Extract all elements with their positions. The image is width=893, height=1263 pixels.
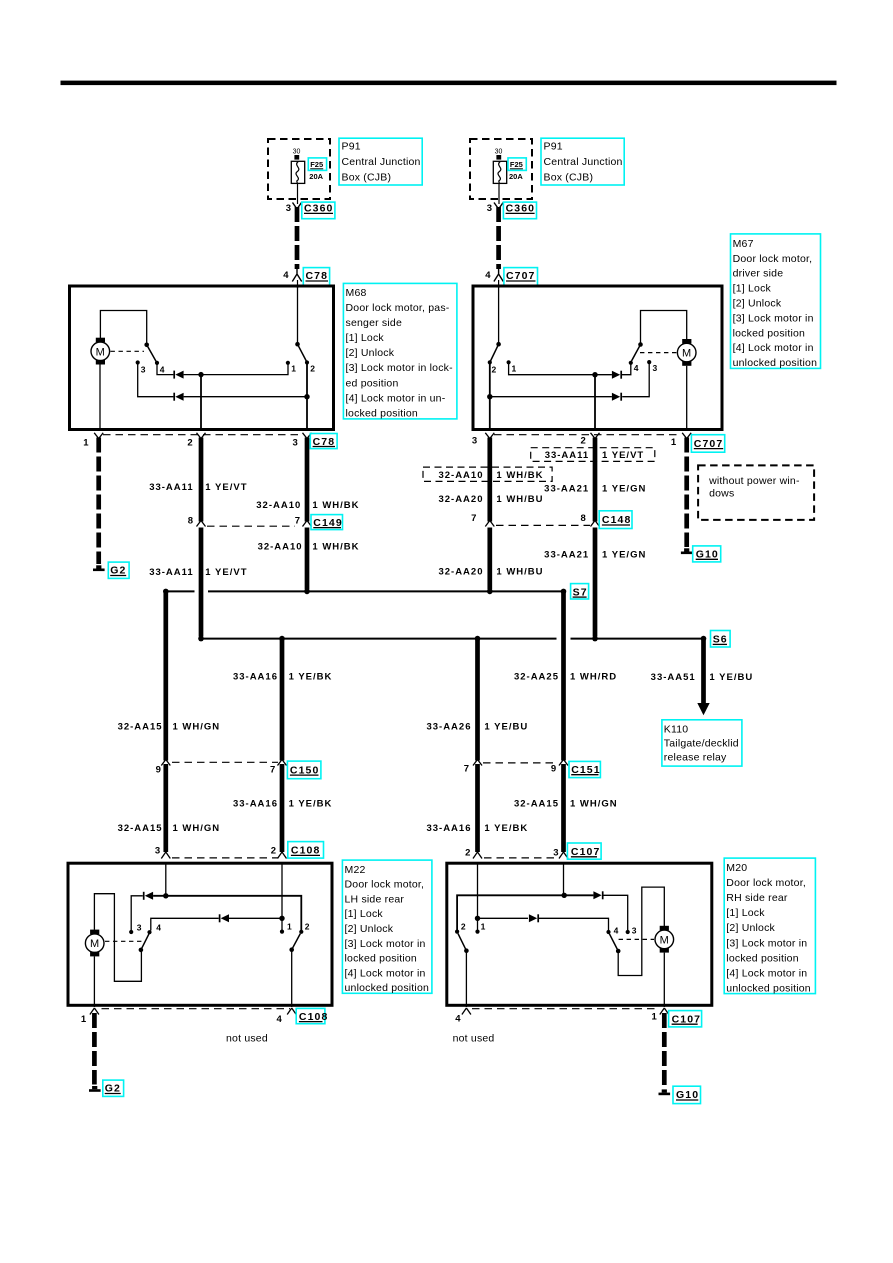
contact 4 M22 bbox=[147, 930, 151, 934]
connector symbol C360 right (prongs up) bbox=[494, 203, 503, 210]
svg-text:Door lock motor,: Door lock motor, bbox=[733, 253, 813, 265]
svg-text:30: 30 bbox=[495, 149, 503, 156]
motor box M20 border bbox=[447, 863, 712, 1005]
svg-text:[1] Lock: [1] Lock bbox=[733, 283, 772, 295]
switch pivot M22 left bbox=[139, 948, 144, 953]
svg-text:33-AA11: 33-AA11 bbox=[149, 482, 194, 493]
wire 32-AA15 upper (bus to C150 pin9) bbox=[163, 591, 168, 760]
connector symbol C108 pin2 (prongs down) bbox=[278, 852, 287, 859]
wire diode lower to pin3 wire M68 bbox=[184, 396, 307, 398]
ground G2 mid symbol bbox=[93, 565, 105, 571]
wire diode to contact 3 M20 bbox=[603, 895, 628, 930]
switch arm M68 left (closed on 4) bbox=[147, 345, 156, 361]
wire contact 3 riser to horizontal M67 lower bbox=[622, 362, 649, 397]
svg-text:[4] Lock motor in un-: [4] Lock motor in un- bbox=[346, 392, 446, 404]
svg-text:1 WH/BK: 1 WH/BK bbox=[496, 470, 543, 481]
label C148 (cyan box) bbox=[599, 511, 632, 529]
wire 33-AA11 upper (M68 pin2 to C149 pin8) bbox=[199, 438, 204, 522]
contact 3 M67 bbox=[647, 360, 651, 364]
contact 3 M22 bbox=[129, 930, 133, 934]
svg-text:3: 3 bbox=[293, 437, 298, 448]
wire contact 2 down to pin 3 M68 bbox=[306, 363, 308, 430]
wire pin2 dot to diode M20 lower bbox=[478, 917, 529, 919]
junction dot 33-AA11 end bbox=[198, 636, 204, 642]
connector symbol C149 pin8 bbox=[197, 521, 206, 527]
connector symbol pin1 C78 (prongs up) bbox=[94, 433, 103, 439]
svg-text:1 YE/BK: 1 YE/BK bbox=[484, 823, 528, 834]
contact 2 M20 bbox=[455, 930, 459, 934]
splice bus S7 (lock circuit) bbox=[165, 590, 564, 592]
fuse F25 left body bbox=[291, 161, 304, 183]
switch pivot M68 right bbox=[295, 342, 300, 347]
connector symbol C150 pin7 bbox=[278, 760, 287, 766]
svg-text:3: 3 bbox=[141, 365, 146, 375]
wire C707 pin4 down to pivot M67 left bbox=[498, 287, 500, 344]
svg-text:4: 4 bbox=[156, 922, 161, 932]
junction dot on pin2 wire M67 bbox=[592, 372, 597, 377]
wire 33-AA16 upper (bus to C150 pin7) bbox=[280, 639, 285, 761]
wire C107 pin1 to ground G10 (thick dashed) bbox=[662, 1013, 667, 1088]
svg-text:33-AA11: 33-AA11 bbox=[149, 567, 194, 578]
top horizontal rule bbox=[61, 81, 837, 86]
svg-text:Central Junction: Central Junction bbox=[544, 156, 623, 168]
label 33-AA11 1 YE/VT alternate (dashed box) bbox=[531, 448, 655, 462]
svg-text:32-AA25: 32-AA25 bbox=[514, 671, 559, 682]
junction dot pin2 wire M22 bbox=[279, 916, 284, 921]
svg-text:9: 9 bbox=[551, 764, 556, 775]
label G10 bottom (cyan box) bbox=[673, 1086, 701, 1103]
wire fuse to C360 left bbox=[297, 183, 299, 204]
svg-text:RH side rear: RH side rear bbox=[726, 892, 788, 904]
wire contact 1 riser to horizontal M67 bbox=[509, 362, 595, 374]
svg-text:1: 1 bbox=[287, 921, 292, 931]
switch arm M67 right (closed on 4) bbox=[632, 345, 641, 362]
svg-text:2: 2 bbox=[187, 437, 192, 448]
svg-text:1 YE/VT: 1 YE/VT bbox=[602, 450, 644, 461]
wire contact4 riser and horizontal M22 lower bbox=[151, 918, 219, 930]
ground G10 mid symbol bbox=[681, 548, 693, 554]
label M68 description (cyan box) bbox=[343, 283, 457, 419]
wire 32-AA20 upper (M67 pin3 to C148 pin7) bbox=[487, 438, 492, 522]
svg-text:release relay: release relay bbox=[664, 752, 727, 764]
wire contact 3 to diode M68 lower bbox=[138, 363, 174, 397]
wire diode to contact 2 M22 bbox=[153, 896, 301, 931]
dashed line C707 connector row bbox=[494, 434, 681, 436]
junction dot 32-AA10 end bbox=[304, 589, 310, 595]
junction dot 32-AA20 end bbox=[487, 589, 493, 595]
ground G10 bottom symbol bbox=[659, 1089, 671, 1095]
svg-text:4: 4 bbox=[614, 926, 619, 936]
svg-text:locked position: locked position bbox=[346, 407, 418, 419]
wire contact 4 to diode M68 bbox=[157, 363, 173, 375]
junction dot 33-AA21 end bbox=[592, 636, 598, 642]
wire C108 pin1 to ground G2 (thick dashed) bbox=[92, 1013, 97, 1085]
svg-text:[1] Lock: [1] Lock bbox=[726, 907, 765, 919]
wire M67 pin1 to ground G10 (thick dashed) bbox=[684, 438, 689, 548]
connector symbol pin1 C707 (prongs up) bbox=[682, 433, 691, 439]
connector symbol C108 pin4 (prongs down, not used) bbox=[287, 1008, 296, 1015]
svg-text:4: 4 bbox=[283, 270, 289, 281]
svg-text:2: 2 bbox=[461, 921, 466, 931]
svg-text:7: 7 bbox=[471, 513, 476, 524]
node S7 dot bbox=[561, 589, 567, 595]
switch pivot M20 left bbox=[464, 948, 469, 953]
switch pivot M67 right bbox=[638, 342, 643, 347]
dashed line C150 connector row bbox=[172, 761, 278, 763]
svg-text:[3] Lock motor in: [3] Lock motor in bbox=[733, 312, 814, 324]
connector symbol C108 pin1 (prongs down) bbox=[90, 1008, 99, 1015]
wire motor M20 bottom to pin 1 bbox=[663, 953, 665, 1007]
svg-text:4: 4 bbox=[634, 363, 639, 373]
svg-text:F25: F25 bbox=[510, 160, 523, 169]
dashed line C108 connector row bbox=[172, 857, 278, 859]
svg-text:1 WH/BK: 1 WH/BK bbox=[312, 541, 359, 552]
svg-text:[3] Lock motor in: [3] Lock motor in bbox=[726, 937, 807, 949]
diode M20 lower (points right) bbox=[529, 914, 538, 922]
wire 33-AA11 lower (C149 pin8 to bus) bbox=[199, 528, 204, 637]
connector symbol C151 pin7 bbox=[473, 760, 482, 766]
label F25 left (cyan box) bbox=[308, 158, 326, 171]
P91 Central Junction Box label left (cyan box) bbox=[339, 138, 422, 185]
svg-text:M67: M67 bbox=[733, 238, 754, 250]
junction dot pin3 wire M67 bbox=[487, 394, 492, 399]
switch arm M22 right (closed on 2) bbox=[292, 934, 301, 950]
wire 32-AA20 lower (C148 pin7 to splice) bbox=[487, 528, 492, 590]
motor M68 bbox=[91, 338, 110, 365]
wire C108 pin2 into box to contact 1 bbox=[281, 862, 283, 931]
svg-text:33-AA16: 33-AA16 bbox=[426, 823, 471, 834]
svg-text:33-AA21: 33-AA21 bbox=[544, 550, 589, 561]
wire pivot M20 left down to pin 4 bbox=[465, 951, 467, 1007]
svg-text:1 YE/BU: 1 YE/BU bbox=[484, 721, 528, 732]
wire fuse to C360 right bbox=[498, 183, 500, 204]
dashed line C149 connector row bbox=[207, 525, 295, 527]
dashed line C108 bottom row bbox=[102, 1008, 291, 1010]
svg-text:1: 1 bbox=[512, 364, 517, 374]
svg-text:4: 4 bbox=[160, 365, 165, 375]
contact 4 M68 bbox=[155, 361, 159, 365]
diode M22 upper (points left) bbox=[144, 892, 153, 900]
wire diode lower to pin3 wire M67 bbox=[490, 396, 612, 398]
wire C107 pin2 into box to contact 1 bbox=[477, 862, 479, 931]
svg-text:1 WH/GN: 1 WH/GN bbox=[173, 721, 221, 732]
label 32-AA10 1 WH/BK alternate (dashed box) bbox=[423, 467, 552, 481]
svg-text:1 YE/BK: 1 YE/BK bbox=[289, 799, 333, 810]
connector symbol C107 pin2 (prongs down) bbox=[473, 852, 482, 859]
label M22 description (cyan box) bbox=[342, 860, 432, 994]
diode M68 upper (points left) bbox=[174, 371, 183, 379]
dashed line C107 connector row bbox=[484, 857, 560, 859]
wire 33-AA26 (bus to C151 pin7) bbox=[475, 639, 480, 761]
wire diode to contact 1 M68 bbox=[184, 364, 288, 375]
svg-text:1 WH/GN: 1 WH/GN bbox=[570, 799, 618, 810]
wire 33-AA51 to K110 (arrow) bbox=[697, 639, 709, 716]
connector symbol C108 pin3 (prongs down) bbox=[161, 852, 170, 859]
svg-text:not used: not used bbox=[453, 1033, 495, 1045]
svg-text:without power win-: without power win- bbox=[708, 475, 800, 487]
wire contact 2 down to pin 3 M67 bbox=[489, 362, 491, 429]
ground G2 bottom symbol bbox=[89, 1086, 101, 1092]
svg-text:Door lock motor,: Door lock motor, bbox=[345, 879, 425, 891]
dashed line C151 connector row bbox=[483, 762, 558, 764]
label C360 right (cyan box) bbox=[503, 202, 536, 219]
svg-text:P91: P91 bbox=[544, 141, 563, 153]
svg-text:1 YE/BK: 1 YE/BK bbox=[289, 671, 333, 682]
svg-text:M: M bbox=[660, 934, 669, 946]
svg-text:1 WH/BK: 1 WH/BK bbox=[312, 500, 359, 511]
fuse box P91 left (dashed border) bbox=[268, 139, 330, 199]
contact 4 M20 bbox=[606, 930, 610, 934]
svg-text:2: 2 bbox=[581, 436, 586, 447]
connector symbol C107 pin3 (prongs down) bbox=[559, 852, 568, 859]
motor M67 bbox=[677, 339, 696, 366]
label C150 (cyan box) bbox=[287, 761, 321, 779]
svg-text:33-AA16: 33-AA16 bbox=[233, 799, 278, 810]
wire contact2 riser and horizontal M20 upper bbox=[457, 895, 593, 931]
junction dot 33-AA16 start bbox=[279, 636, 285, 642]
svg-text:7: 7 bbox=[464, 764, 469, 775]
svg-text:1: 1 bbox=[481, 921, 486, 931]
svg-text:20A: 20A bbox=[509, 172, 523, 181]
label C107 bottom (cyan box) bbox=[669, 1011, 702, 1027]
svg-text:1: 1 bbox=[81, 1014, 87, 1025]
svg-text:1: 1 bbox=[652, 1012, 658, 1023]
wire pivot M22 right down to pin 4 bbox=[291, 950, 293, 1007]
svg-text:20A: 20A bbox=[309, 172, 323, 181]
svg-text:LH side rear: LH side rear bbox=[345, 893, 405, 905]
svg-text:[4] Lock motor in: [4] Lock motor in bbox=[345, 967, 426, 979]
contact 1 M22 bbox=[280, 930, 284, 934]
label S6 (cyan box) bbox=[711, 631, 731, 648]
node 30 terminal dot left bbox=[294, 155, 299, 160]
svg-text:3: 3 bbox=[553, 847, 558, 858]
svg-text:4: 4 bbox=[277, 1014, 283, 1025]
svg-text:3: 3 bbox=[487, 203, 492, 214]
junction dot pin2 wire M20 bbox=[475, 916, 480, 921]
wire 32-AA15 lower (C150 pin9 to C108 pin3) bbox=[163, 764, 168, 852]
svg-text:K110: K110 bbox=[664, 723, 689, 735]
svg-text:unlocked position: unlocked position bbox=[345, 982, 430, 994]
wire into M68 box top bbox=[297, 280, 299, 288]
svg-text:2: 2 bbox=[492, 365, 497, 375]
motor box M68 border bbox=[70, 286, 334, 430]
label C108 top (cyan box) bbox=[288, 842, 324, 859]
label C107 top (cyan box) bbox=[567, 843, 601, 859]
svg-text:not used: not used bbox=[226, 1033, 268, 1045]
svg-text:4: 4 bbox=[485, 270, 491, 281]
connector symbol C149 pin7 bbox=[303, 521, 312, 527]
svg-text:32-AA10: 32-AA10 bbox=[256, 500, 301, 511]
svg-text:3: 3 bbox=[653, 363, 658, 373]
svg-text:M68: M68 bbox=[346, 287, 367, 299]
dashed line C78 connector row bbox=[103, 434, 303, 436]
svg-text:3: 3 bbox=[155, 845, 160, 856]
connector symbol C150 pin9 bbox=[161, 760, 170, 766]
wire motor M20 top loop to pivot bbox=[618, 887, 664, 975]
junction dot pin3 wire M22 bbox=[163, 893, 168, 898]
wire C360 to C78 left (thick dashed) bbox=[295, 207, 300, 269]
connector symbol pin2 C707 (prongs up) bbox=[591, 433, 600, 439]
wire 32-AA25 (S7 to C151 pin9) bbox=[561, 591, 566, 760]
svg-text:dows: dows bbox=[709, 487, 734, 499]
svg-text:M: M bbox=[96, 346, 105, 358]
junction dot 33-AA26 start bbox=[475, 636, 481, 642]
dashed line C148 connector row bbox=[496, 524, 590, 526]
wire 33-AA21 lower (C148 pin8 to bus) bbox=[593, 528, 598, 637]
svg-text:1 YE/VT: 1 YE/VT bbox=[205, 482, 247, 493]
diode M67 lower (points right) bbox=[612, 393, 621, 401]
wire motor M22 top loop to pivot bbox=[94, 894, 141, 982]
svg-text:P91: P91 bbox=[342, 141, 361, 153]
dashed link motor to switch M20 bbox=[619, 938, 654, 940]
svg-text:7: 7 bbox=[270, 764, 275, 775]
wire C108 pin3 into box to diode row bbox=[165, 862, 167, 896]
svg-text:1 YE/GN: 1 YE/GN bbox=[602, 550, 646, 561]
wire 32-AA15 right lower (C151 pin9 to C107 pin3) bbox=[561, 764, 566, 852]
switch arm M67 left (closed on 2) bbox=[491, 344, 499, 361]
svg-text:1 YE/GN: 1 YE/GN bbox=[602, 483, 646, 494]
label G2 mid (cyan box) bbox=[108, 562, 129, 578]
svg-text:32-AA20: 32-AA20 bbox=[438, 494, 483, 505]
svg-text:locked position: locked position bbox=[726, 952, 798, 964]
motor M22 bbox=[85, 930, 104, 957]
contact 2 M67 bbox=[488, 360, 492, 364]
contact 1 M20 bbox=[475, 930, 479, 934]
label G2 bottom (cyan box) bbox=[103, 1080, 124, 1096]
wire M68 pin1 to ground G2 (thick dashed) bbox=[96, 438, 101, 565]
wire motor M22 bottom to pin 1 bbox=[93, 956, 95, 1007]
wire 32-AA10 lower (C149 pin7 to splice) bbox=[305, 528, 310, 590]
connector symbol C148 pin7 bbox=[485, 521, 494, 527]
wire diode to contact 4 M67 bbox=[621, 364, 631, 375]
svg-text:1 WH/BU: 1 WH/BU bbox=[496, 567, 543, 578]
junction dot on pin2 wire M68 bbox=[198, 372, 203, 377]
svg-text:33-AA26: 33-AA26 bbox=[426, 721, 471, 732]
switch arm M22 left (closed on 4) bbox=[141, 934, 149, 950]
switch pivot M20 right bbox=[616, 949, 621, 954]
wire C78 pin4 down to pivot M68 right bbox=[297, 287, 299, 344]
svg-text:[4] Lock motor in: [4] Lock motor in bbox=[726, 967, 807, 979]
svg-text:30: 30 bbox=[293, 149, 301, 156]
svg-text:1 WH/GN: 1 WH/GN bbox=[173, 823, 221, 834]
diode M22 lower (points left) bbox=[220, 914, 229, 922]
contact 1 M67 bbox=[507, 360, 511, 364]
label C78 bottom (cyan box) bbox=[310, 434, 337, 449]
svg-text:33-AA21: 33-AA21 bbox=[544, 483, 589, 494]
switch arm M68 right (closed on 2) bbox=[298, 344, 307, 361]
motor box M67 border bbox=[473, 286, 722, 430]
svg-text:[1] Lock: [1] Lock bbox=[345, 908, 384, 920]
svg-text:3: 3 bbox=[137, 922, 142, 932]
junction dot bus start 32-AA15 bbox=[163, 589, 169, 595]
svg-text:[2] Unlock: [2] Unlock bbox=[726, 922, 775, 934]
svg-text:[3] Lock motor in lock-: [3] Lock motor in lock- bbox=[346, 362, 454, 374]
svg-text:Door lock motor, pas-: Door lock motor, pas- bbox=[346, 302, 450, 314]
svg-text:[4] Lock motor in: [4] Lock motor in bbox=[733, 342, 814, 354]
contact 2 M22 bbox=[299, 930, 303, 934]
label M67 description (cyan box) bbox=[731, 234, 821, 369]
wire motor M67 top loop bbox=[641, 311, 687, 344]
svg-text:Box (CJB): Box (CJB) bbox=[544, 172, 594, 184]
diode M20 upper (points right) bbox=[593, 891, 602, 899]
svg-text:1: 1 bbox=[83, 437, 89, 448]
svg-text:33-AA11: 33-AA11 bbox=[545, 450, 590, 461]
switch arm M20 left (closed on 2) bbox=[458, 934, 466, 951]
P91 Central Junction Box label right (cyan box) bbox=[541, 138, 624, 185]
svg-text:32-AA15: 32-AA15 bbox=[514, 799, 559, 810]
motor M20 bbox=[655, 926, 674, 953]
connector symbol C78 left (prongs down) bbox=[292, 268, 301, 282]
diode M67 upper (points right) bbox=[612, 371, 621, 379]
svg-text:3: 3 bbox=[286, 203, 291, 214]
note without power windows (dashed box) bbox=[698, 465, 814, 520]
connector symbol C148 pin8 bbox=[591, 521, 600, 527]
node 30 terminal dot right bbox=[496, 155, 501, 160]
svg-text:[2] Unlock: [2] Unlock bbox=[345, 923, 394, 935]
svg-text:1 YE/BU: 1 YE/BU bbox=[709, 672, 753, 683]
fuse F25 right body bbox=[493, 161, 506, 183]
svg-text:3: 3 bbox=[472, 436, 477, 447]
wire 33-AA16 right lower (C151 pin7 to C107 pin2) bbox=[475, 764, 480, 852]
connector symbol pin3 C707 (prongs up) bbox=[485, 433, 494, 439]
svg-text:1 WH/BU: 1 WH/BU bbox=[496, 494, 543, 505]
svg-text:Door lock motor,: Door lock motor, bbox=[726, 877, 806, 889]
switch pivot M22 right bbox=[289, 947, 294, 952]
contact 4 M67 bbox=[629, 361, 633, 365]
svg-text:32-AA10: 32-AA10 bbox=[438, 470, 483, 481]
contact 3 M20 bbox=[626, 930, 630, 934]
label C108 bottom (cyan box) bbox=[296, 1008, 328, 1023]
svg-text:Box (CJB): Box (CJB) bbox=[342, 172, 392, 184]
svg-text:[2] Unlock: [2] Unlock bbox=[346, 347, 395, 359]
contact 2 M68 bbox=[305, 360, 309, 364]
wire C107 pin3 into box to diode row bbox=[563, 862, 565, 896]
fuse box P91 right (dashed border) bbox=[470, 139, 532, 199]
svg-text:[3] Lock motor in: [3] Lock motor in bbox=[345, 938, 426, 950]
connector symbol C707 top right (prongs down) bbox=[494, 268, 503, 282]
wire 32-AA10 upper (M68 pin3 to C149 pin7) bbox=[305, 438, 310, 522]
svg-text:2: 2 bbox=[310, 364, 315, 374]
svg-text:locked position: locked position bbox=[733, 327, 805, 339]
motor box M22 border bbox=[68, 863, 332, 1005]
svg-text:locked position: locked position bbox=[345, 953, 417, 965]
svg-text:M22: M22 bbox=[345, 864, 366, 876]
svg-text:7: 7 bbox=[295, 516, 300, 527]
label C149 (cyan box) bbox=[311, 515, 343, 530]
svg-text:Central Junction: Central Junction bbox=[342, 156, 421, 168]
svg-text:32-AA15: 32-AA15 bbox=[118, 823, 163, 834]
wire pin 2 inside M67 bbox=[594, 375, 596, 429]
wire 33-AA21 upper (M67 pin2 to C148 pin8) bbox=[593, 438, 598, 522]
svg-text:2: 2 bbox=[465, 847, 470, 858]
wire diode lower to pin2 wire M22 bbox=[229, 917, 282, 919]
svg-text:unlocked position: unlocked position bbox=[733, 357, 818, 369]
wire pin 2 inside M68 bbox=[200, 375, 202, 429]
wire motor M68 top loop bbox=[100, 311, 146, 344]
wire junction to diode M67 upper bbox=[595, 374, 612, 376]
svg-text:[2] Unlock: [2] Unlock bbox=[733, 298, 782, 310]
svg-text:4: 4 bbox=[455, 1014, 461, 1025]
label C707 bottom (cyan box) bbox=[691, 435, 724, 453]
label G10 mid (cyan box) bbox=[693, 546, 721, 562]
connector symbol C107 pin1 (prongs down) bbox=[660, 1008, 669, 1015]
junction dot pin3 wire M68 bbox=[304, 394, 309, 399]
switch pivot M67 left bbox=[496, 342, 501, 347]
switch arm M20 right (closed on 4) bbox=[609, 934, 618, 951]
svg-text:M20: M20 bbox=[726, 862, 747, 874]
node S6 dot bbox=[701, 636, 707, 642]
wire motor M68 bottom to pin 1 bbox=[99, 365, 101, 430]
